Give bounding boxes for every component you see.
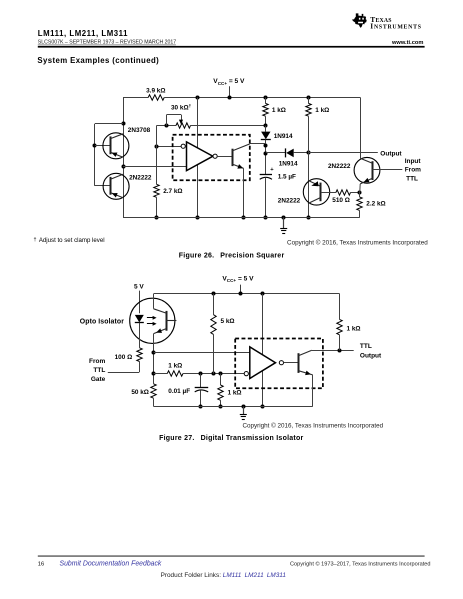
svg-text:Copyright © 2016, Texas Instru: Copyright © 2016, Texas Instruments Inco… — [287, 239, 428, 247]
svg-text:1 kΩ: 1 kΩ — [347, 325, 361, 332]
svg-text:2N2222: 2N2222 — [278, 198, 301, 205]
svg-text:1 kΩ: 1 kΩ — [315, 107, 329, 114]
wire: 5V tick to LED anode — [139, 291, 141, 314]
wire: bottom ground rail — [123, 217, 360, 219]
svg-text:Output: Output — [380, 150, 402, 157]
svg-text:System Examples (continued): System Examples (continued) — [37, 56, 159, 65]
LED inside opto — [135, 315, 144, 323]
wire: top rail (fig 27) — [154, 293, 340, 295]
footer rule — [38, 555, 425, 558]
TI logo: Texas map icon — [352, 13, 367, 28]
wire: node column down to ground rail — [308, 153, 310, 218]
junction dots on top rail — [196, 96, 200, 100]
output bubble — [213, 154, 217, 158]
inverting input bubble (fig 27) — [244, 372, 248, 376]
svg-text:30 kΩ†: 30 kΩ† — [171, 104, 192, 112]
wire: from TTL gate — [108, 372, 140, 374]
wire: phototransistor collector to rail — [153, 294, 155, 309]
inverting input bubble — [181, 144, 185, 148]
svg-text:1N914: 1N914 — [274, 133, 293, 140]
svg-text:Input: Input — [405, 158, 422, 165]
svg-text:Gate: Gate — [91, 376, 106, 383]
junction on base bus — [93, 144, 97, 148]
op-amp U1 comparator triangle — [187, 142, 213, 171]
svg-text:www.ti.com: www.ti.com — [391, 40, 423, 46]
svg-text:VCC+ = 5 V: VCC+ = 5 V — [213, 78, 245, 86]
wire: comparator output collector to node — [250, 143, 266, 145]
transistor Q5 (comparator output stage) — [232, 144, 250, 169]
dashed comparator package (Figure 26) — [173, 135, 250, 181]
transistor Q2 2N2222 (clamp, lower) — [103, 173, 129, 199]
svg-text:From: From — [405, 167, 421, 174]
header rule — [38, 46, 425, 48]
junction: node at clamp top — [122, 122, 126, 126]
svg-text:Product Folder Links: LM111 LM: Product Folder Links: LM111 LM211 LM311 — [161, 572, 287, 579]
svg-text:2N2222: 2N2222 — [129, 175, 152, 182]
svg-text:3.9 kΩ: 3.9 kΩ — [146, 88, 165, 95]
wire: divider column — [156, 126, 158, 185]
wire: output line to label — [308, 152, 378, 154]
transistor Q1 2N3708 (clamp, upper) — [103, 133, 129, 159]
svg-text:Copyright © 1973–2017, Texas I: Copyright © 1973–2017, Texas Instruments… — [290, 560, 431, 567]
wire: comparator ground line (through package) — [262, 294, 264, 407]
phototransistor inside opto — [154, 309, 177, 334]
svg-text:+: + — [270, 167, 274, 173]
wire: Q4 emitter down — [359, 184, 361, 192]
capacitor 1.5 uF (polarized) — [260, 174, 272, 176]
svg-text:† Adjust to set clamp level: † Adjust to set clamp level — [34, 237, 105, 245]
svg-text:1.5 µF: 1.5 µF — [278, 174, 296, 181]
wire: top V+ rail right segment — [164, 97, 360, 99]
wire: Q5 emitter to ground rail — [243, 168, 245, 217]
resistor 50 kOhm — [151, 384, 156, 398]
svg-text:5 kΩ: 5 kΩ — [221, 318, 235, 325]
svg-text:1 kΩ: 1 kΩ — [168, 363, 182, 370]
node: Vcc tick — [229, 86, 231, 97]
wire: Q3 base lead — [321, 192, 336, 194]
resistor 3.9 kOhm (on top rail) — [148, 95, 164, 100]
wire: output bubble to Q6 base — [284, 362, 299, 364]
svg-text:Output: Output — [360, 353, 382, 360]
dashed comparator package (Figure 27) — [235, 339, 323, 389]
svg-text:TTL: TTL — [406, 175, 418, 182]
resistor 1 kOhm (to ground) — [220, 374, 222, 385]
svg-text:2N2222: 2N2222 — [328, 163, 351, 170]
wire: branch to base bus — [95, 123, 123, 125]
svg-text:Figure 27. Digital Transmissi: Figure 27. Digital Transmission Isolator — [159, 435, 303, 442]
resistor 100 Ohm — [137, 348, 142, 362]
svg-text:2N3708: 2N3708 — [128, 127, 151, 134]
transistor Q4 2N2222 (TTL input) — [354, 157, 380, 183]
wire: emitter to comparator + input — [154, 352, 250, 354]
resistor 510 Ohm — [336, 190, 351, 195]
wire: Q4 collector to rail — [360, 97, 362, 158]
svg-text:16: 16 — [38, 561, 44, 567]
wire: base bus vertical — [94, 124, 96, 186]
wire: to comparator noninverting input — [123, 166, 187, 168]
diode D2 1N914 (horizontal, pointing left) — [266, 152, 286, 154]
svg-text:LM111, LM211, LM311: LM111, LM211, LM311 — [38, 29, 128, 38]
resistor 1 kOhm (output pull-up) — [339, 294, 341, 320]
svg-text:5 V: 5 V — [134, 283, 144, 290]
wire: filter node to inverting input — [154, 373, 168, 375]
wire: Q4 base lead — [372, 169, 402, 171]
svg-text:TTL: TTL — [360, 343, 372, 350]
svg-text:1 kΩ: 1 kΩ — [228, 390, 242, 397]
transistor Q6 (comparator output stage, fig 27) — [298, 350, 312, 375]
wire: Q6 collector to TTL output node — [312, 350, 354, 352]
resistor 5 kOhm (supply line) — [213, 294, 215, 315]
wire: bottom ground rail (fig 27) — [154, 406, 313, 408]
svg-text:50 kΩ: 50 kΩ — [131, 389, 149, 396]
junction: clamp mid node — [122, 165, 126, 169]
ground symbol (fig 27) — [242, 405, 246, 409]
potentiometer 30 kOhm wiring — [156, 125, 176, 127]
resistor 1 kOhm (series) — [167, 371, 183, 376]
wire: inverting input from divider — [156, 146, 181, 148]
resistor 2.2 kOhm — [359, 192, 361, 197]
opto coupling arrows — [147, 317, 154, 319]
resistor 2.7 kOhm — [154, 184, 159, 197]
capacitor 0.01 uF — [200, 374, 202, 388]
wire: comparator supply line (through package) — [197, 97, 199, 217]
op-amp U3 comparator triangle — [250, 347, 276, 379]
wire: output bubble to Q5 base — [217, 156, 232, 158]
svg-text:1N914: 1N914 — [279, 161, 298, 168]
diode D1 1N914 (vertical) — [265, 126, 267, 132]
wire: emitter column — [153, 334, 155, 384]
wire: Q1 base lead — [95, 145, 111, 147]
resistor 30 kOhm (pot body) — [176, 123, 191, 128]
transistor Q3 2N2222 (mirrored, clamp driver) — [303, 179, 329, 205]
svg-text:Opto Isolator: Opto Isolator — [80, 319, 124, 326]
output bubble (fig 27) — [279, 361, 283, 365]
svg-text:Copyright © 2016, Texas Instru: Copyright © 2016, Texas Instruments Inco… — [242, 421, 383, 429]
svg-text:From: From — [89, 358, 105, 365]
svg-text:Submit Documentation Feedback: Submit Documentation Feedback — [60, 560, 162, 567]
svg-text:0.01 µF: 0.01 µF — [168, 388, 190, 395]
wire: top V+ rail left segment — [123, 97, 148, 99]
svg-text:Figure 26. Precision Squarer: Figure 26. Precision Squarer — [179, 253, 285, 260]
wire: pot to diode node — [191, 125, 266, 127]
wire: Q2 base lead — [95, 185, 111, 187]
resistor 1 kOhm (left pull-up) — [265, 97, 267, 103]
opto isolator U2 — [130, 298, 175, 343]
svg-text:VCC+ = 5 V: VCC+ = 5 V — [222, 275, 254, 283]
svg-text:TTL: TTL — [93, 367, 105, 374]
svg-text:100 Ω: 100 Ω — [115, 354, 133, 361]
node: Vcc tick — [240, 285, 242, 294]
wire: Q6 emitter to ground rail — [312, 375, 314, 407]
svg-text:1 kΩ: 1 kΩ — [272, 107, 286, 114]
svg-text:2.2 kΩ: 2.2 kΩ — [366, 201, 385, 208]
svg-text:2.7 kΩ: 2.7 kΩ — [163, 188, 182, 195]
ground symbol — [282, 216, 286, 220]
svg-text:510 Ω: 510 Ω — [332, 197, 350, 204]
resistor 1 kOhm (right pull-up) — [308, 97, 310, 103]
wire: left column (collector/emitter bus of clamp transistors) — [123, 97, 125, 217]
